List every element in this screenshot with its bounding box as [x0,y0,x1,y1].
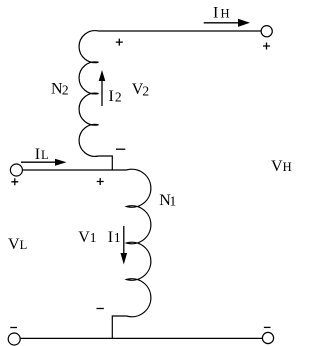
svg-text:VH: VH [271,158,292,175]
svg-text:I1: I1 [108,229,121,246]
svg-text:IH: IH [213,5,230,22]
svg-text:V2: V2 [132,81,149,98]
svg-text:N1: N1 [159,192,176,209]
svg-text:VL: VL [8,236,27,253]
svg-text:I2: I2 [109,88,122,105]
svg-text:V1: V1 [78,229,96,246]
svg-text:N2: N2 [51,81,69,98]
svg-text:IL: IL [35,146,49,163]
